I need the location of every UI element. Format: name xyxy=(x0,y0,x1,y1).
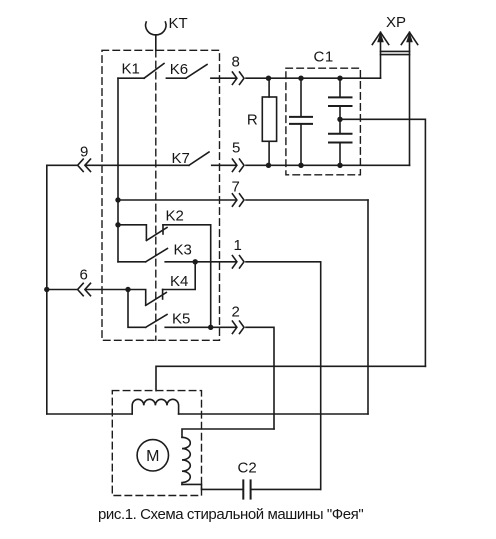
wire K2 to K5 vertical xyxy=(163,225,211,327)
KT mechanical linkage dashed line xyxy=(155,50,157,340)
motor dashed box xyxy=(112,391,201,496)
node K3 output xyxy=(193,259,198,264)
wire connector 6 to K4 lead xyxy=(86,290,146,305)
contact K7 xyxy=(189,152,209,165)
svg-text:K3: K3 xyxy=(174,242,192,259)
wire K2 branch lead xyxy=(118,225,146,240)
node bottom rail / R xyxy=(266,163,271,168)
KT stem wire xyxy=(155,35,157,51)
svg-text:K7: K7 xyxy=(172,150,190,167)
wire K6 to connector 8 xyxy=(211,77,235,79)
contact K5 xyxy=(146,315,167,328)
svg-text:KT: KT xyxy=(169,15,188,32)
wire connector 2 to auxiliary winding xyxy=(246,327,274,429)
node C1 midpoint xyxy=(337,117,342,122)
svg-text:8: 8 xyxy=(232,54,240,71)
wire connector 9 to K7 xyxy=(86,164,189,166)
contact K2 (normally closed) xyxy=(146,225,167,241)
svg-text:2: 2 xyxy=(232,304,240,321)
svg-text:C2: C2 xyxy=(238,460,257,477)
svg-text:M: M xyxy=(146,448,159,465)
svg-text:K2: K2 xyxy=(166,208,184,225)
node top rail / C1 left xyxy=(298,76,303,81)
wire C2 to connector 1 vertical xyxy=(252,488,321,490)
svg-text:XP: XP xyxy=(386,14,406,31)
wire connector 7 branch xyxy=(118,199,235,201)
wire K1 left vertical xyxy=(117,78,119,262)
connector 2 chevrons xyxy=(232,321,244,333)
capacitor C1 right-top section xyxy=(329,78,352,119)
svg-text:рис.1. Схема стиральной машины: рис.1. Схема стиральной машины "Фея" xyxy=(98,506,363,523)
motor main winding L1 xyxy=(132,399,178,414)
C1 dashed box xyxy=(286,68,361,175)
contact block dashed box xyxy=(102,50,220,340)
wire R top lead xyxy=(268,78,270,97)
contact K4 (normally closed) xyxy=(146,290,167,306)
motor M circle xyxy=(137,440,168,471)
wire tap across to motor frame xyxy=(156,366,425,390)
svg-text:K4: K4 xyxy=(170,273,188,290)
wire connector 6 from left rail xyxy=(47,289,77,291)
plug XP bar xyxy=(381,51,410,54)
node connector 7 branch xyxy=(115,197,120,202)
wire K1 to K6 xyxy=(166,77,186,79)
wire K7 to connector 5 xyxy=(212,164,236,166)
wire R bottom lead xyxy=(268,141,270,165)
contact K1 xyxy=(118,64,164,79)
svg-text:7: 7 xyxy=(232,179,240,196)
capacitor C2 xyxy=(243,480,250,498)
svg-text:R: R xyxy=(247,111,258,128)
svg-text:5: 5 xyxy=(232,140,240,157)
connector 6 chevrons xyxy=(78,283,91,295)
wire connector 1 to C2 right side xyxy=(246,262,321,490)
wire K5 to connector 2 xyxy=(165,326,235,328)
motor auxiliary winding L2 xyxy=(182,437,190,484)
connector 8 chevrons xyxy=(232,72,244,84)
wire K5 branch vertical xyxy=(128,290,146,328)
plug XP left pin xyxy=(372,32,388,78)
resistor R xyxy=(262,97,276,141)
svg-text:K6: K6 xyxy=(170,61,188,78)
svg-text:K5: K5 xyxy=(172,311,190,328)
contact K3 xyxy=(146,249,168,262)
node top rail / C1 right xyxy=(337,76,342,81)
capacitor C1 right-bottom section xyxy=(329,119,352,165)
connector 9 chevrons xyxy=(78,159,91,171)
svg-text:C1: C1 xyxy=(314,48,334,65)
node connector 6 / K4-K5 branch xyxy=(125,287,130,292)
wire K4 to K3 output vertical xyxy=(163,262,196,290)
svg-text:9: 9 xyxy=(80,144,88,161)
timer KT symbol (cup arc) xyxy=(146,22,166,35)
wire connector 7 to right vertical xyxy=(246,199,368,201)
wire left rail top to connector 9 xyxy=(47,164,77,166)
node bottom rail / C1 left xyxy=(298,163,303,168)
node K2 branch xyxy=(115,222,120,227)
connector 7 chevrons xyxy=(232,194,244,206)
wire main winding to right vertical xyxy=(179,413,368,415)
node top rail / R xyxy=(266,76,271,81)
wire C1 midpoint tap to right then down xyxy=(340,119,425,366)
node bottom rail / C1 right xyxy=(337,163,342,168)
plug XP right pin xyxy=(401,32,417,165)
connector 1 chevrons xyxy=(232,256,244,268)
wire auxiliary winding top xyxy=(182,429,274,437)
node left rail / connector 6 xyxy=(44,287,49,292)
wire auxiliary winding bottom to C2 xyxy=(182,484,243,489)
capacitor C1 left section xyxy=(290,78,312,165)
wire main rail to motor main winding xyxy=(47,413,132,415)
wire connector 8 to XP left pin (top rail) xyxy=(246,77,381,79)
wire right vertical to main winding xyxy=(367,200,369,414)
wire connector 5 to XP right pin (bottom rail) xyxy=(246,164,410,166)
wire K3 to connector 1 xyxy=(165,261,235,263)
left rail wire xyxy=(46,165,48,414)
svg-text:6: 6 xyxy=(80,267,88,284)
svg-text:1: 1 xyxy=(234,237,242,254)
node K5 output xyxy=(208,325,213,330)
wire K3 lead xyxy=(118,261,146,263)
contact K6 xyxy=(186,65,207,79)
connector 5 chevrons xyxy=(232,159,244,171)
svg-text:K1: K1 xyxy=(122,61,140,78)
